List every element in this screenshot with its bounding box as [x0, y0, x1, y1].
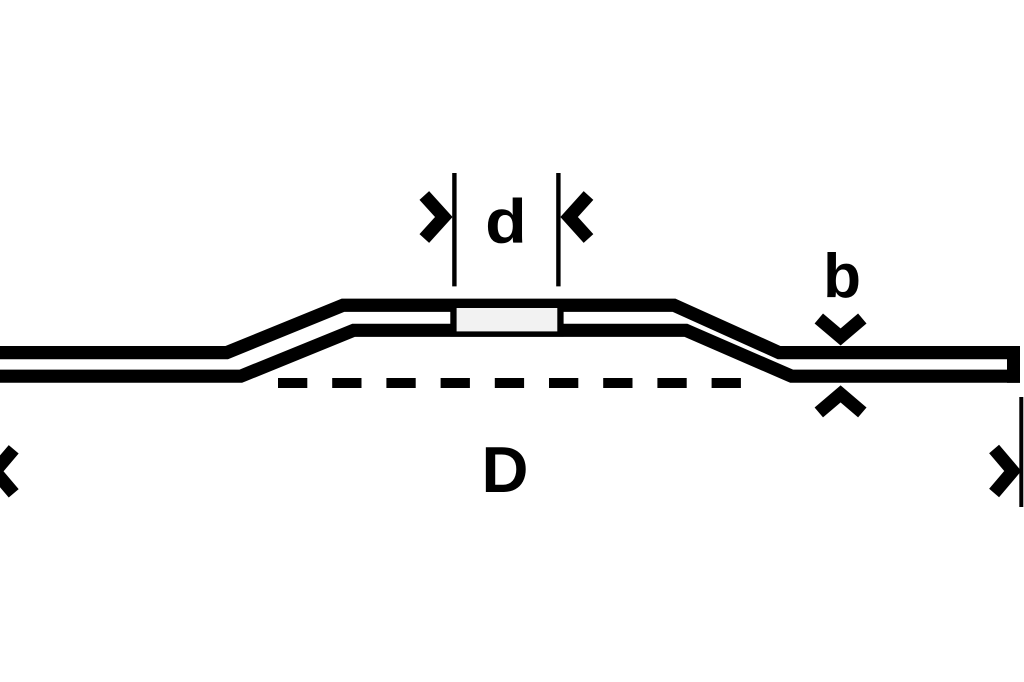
d extension line left [452, 173, 456, 286]
svg-text:D: D [482, 433, 529, 506]
hidden diameter dashed line [278, 378, 741, 388]
b arrow lower (points up) [819, 394, 863, 413]
hub bore (gray rectangle) [457, 308, 558, 331]
D extension line right [1019, 397, 1023, 507]
svg-text:b: b [823, 242, 861, 311]
hub black surround [450, 300, 563, 337]
d arrow left (points right) [424, 196, 444, 239]
disc right end cap [1007, 346, 1020, 383]
d extension line right [556, 173, 560, 286]
disc bottom surface profile line [0, 330, 1020, 376]
D arrow left (points left, clipped at edge) [0, 449, 14, 493]
D arrow right (points right) [994, 449, 1013, 493]
b arrow upper (points down) [819, 319, 863, 338]
svg-text:d: d [485, 186, 527, 255]
d arrow right (points left) [569, 196, 588, 239]
disc top surface profile line [0, 305, 1020, 352]
